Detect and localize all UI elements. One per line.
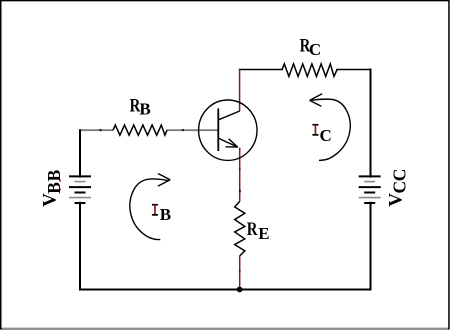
svg-text:B: B <box>160 205 171 224</box>
svg-text:C: C <box>390 181 410 194</box>
svg-text:V: V <box>385 193 406 207</box>
svg-text:C: C <box>309 40 321 59</box>
svg-text:B: B <box>44 182 64 194</box>
svg-text:C: C <box>390 169 410 182</box>
svg-text:B: B <box>139 100 150 119</box>
svg-text:E: E <box>258 224 269 243</box>
svg-text:R: R <box>247 218 258 239</box>
svg-text:C: C <box>320 126 332 145</box>
svg-text:V: V <box>40 193 61 207</box>
svg-text:B: B <box>44 169 64 181</box>
